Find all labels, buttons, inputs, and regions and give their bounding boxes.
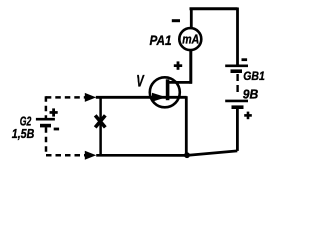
svg-text:9В: 9В — [243, 88, 258, 102]
svg-text:PA1: PA1 — [150, 32, 172, 48]
svg-text:1,5В: 1,5В — [12, 127, 35, 141]
svg-text:mA: mA — [182, 33, 199, 47]
svg-text:V: V — [136, 71, 145, 90]
svg-text:GB1: GB1 — [243, 71, 264, 83]
